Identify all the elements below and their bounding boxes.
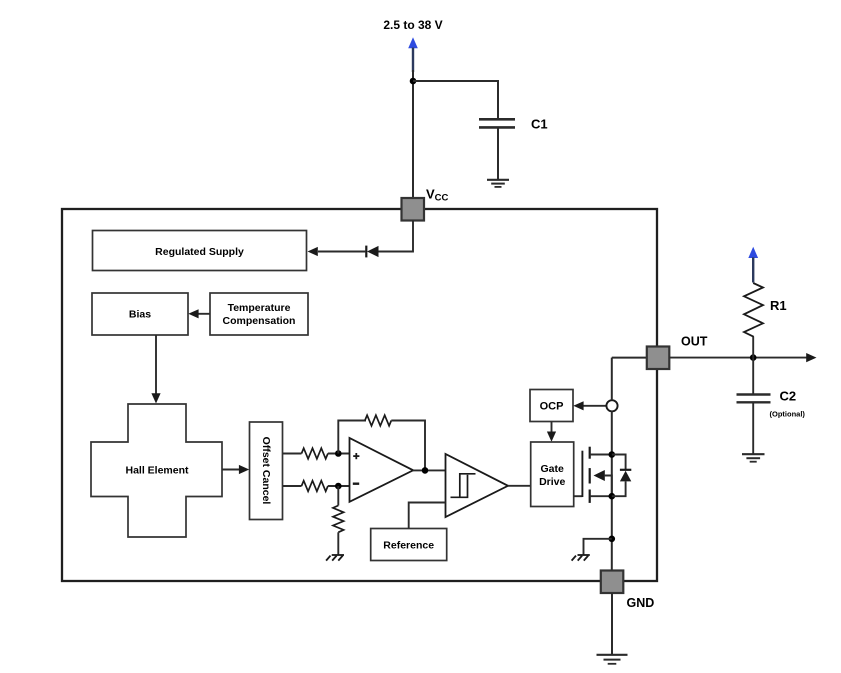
- node junction dot supply: [410, 78, 417, 85]
- Hall Element (cross plate): [91, 404, 222, 537]
- resistor (to ground, below - input): [337, 486, 339, 506]
- wire OUT to the right + arrowhead: [669, 357, 808, 359]
- wire supply vertical to VCC pin: [412, 70, 414, 199]
- gate bar: [581, 451, 583, 497]
- ground (earth) below GND pin: [597, 654, 628, 656]
- wire C1 to ground: [497, 129, 499, 180]
- svg-text:Temperature: Temperature: [228, 302, 291, 314]
- ground (signal) internal: [572, 555, 590, 561]
- svg-text:Compensation: Compensation: [223, 315, 296, 327]
- wire Reference to Schmitt: [409, 503, 446, 529]
- wire Offset Cancel to resistor (lower): [283, 485, 302, 487]
- block Regulated Supply: [93, 231, 307, 271]
- wire VCC pin to diode: [378, 221, 413, 252]
- wire feedback up/right: [338, 421, 366, 454]
- node junction dot (- input): [335, 483, 342, 490]
- svg-text:Bias: Bias: [129, 309, 151, 321]
- svg-text:Drive: Drive: [539, 476, 565, 488]
- svg-text:OUT: OUT: [681, 335, 708, 349]
- wire to internal ground: [584, 539, 612, 555]
- arrowhead into Offset Cancel: [239, 465, 249, 474]
- wire Schmitt to Gate Drive: [508, 485, 531, 487]
- svg-text:GND: GND: [627, 596, 655, 610]
- capacitor C2: [737, 393, 771, 395]
- wire op-amp output to Schmitt: [413, 469, 446, 471]
- wire Hall Element to Offset Cancel: [222, 469, 241, 471]
- power arrow VCC (blue): [408, 37, 418, 48]
- wire feedback to output: [391, 421, 425, 471]
- ground (signal) below resistor: [326, 555, 344, 561]
- channel segments: [589, 447, 591, 459]
- svg-text:Offset Cancel: Offset Cancel: [260, 437, 272, 505]
- svg-text:Hall Element: Hall Element: [125, 465, 189, 477]
- wire to op-amp + input: [328, 453, 350, 455]
- wire current sense to OCP + arrowhead: [581, 405, 607, 407]
- wire GND pin to earth: [611, 593, 613, 654]
- node junction dot (source to gnd): [609, 536, 616, 543]
- arrowhead into Regulated Supply: [308, 247, 318, 256]
- svg-text:Reference: Reference: [383, 540, 434, 552]
- svg-text:2.5 to 38 V: 2.5 to 38 V: [383, 18, 442, 32]
- body arrow: [594, 470, 605, 481]
- IC boundary box: [62, 209, 657, 581]
- wire Offset Cancel to resistor (upper): [283, 453, 302, 455]
- body diode branch: [612, 455, 626, 470]
- wire OUT down to C2: [752, 358, 754, 394]
- resistor R1: [744, 283, 763, 337]
- block Bias: [92, 293, 188, 335]
- node junction dot (op-amp output): [422, 467, 429, 474]
- resistor (lower input): [302, 481, 328, 492]
- block Temperature Compensation: [210, 293, 308, 335]
- wire OCP to Gate Drive + arrowhead: [551, 422, 553, 435]
- pin VCC (gray square): [402, 198, 425, 221]
- arrowhead into Bias: [188, 309, 198, 318]
- ground (earth) below C2: [742, 453, 765, 455]
- op-amp A1: [350, 438, 414, 502]
- power arrow (blue) above R1: [748, 247, 758, 258]
- wire OUT vertical (drain line): [611, 358, 613, 401]
- resistor (upper input): [302, 448, 328, 459]
- node dot drain: [609, 451, 616, 458]
- svg-text:Gate: Gate: [541, 463, 565, 475]
- capacitor C1: [479, 118, 515, 121]
- svg-text:Regulated Supply: Regulated Supply: [155, 246, 244, 258]
- current sense circle: [606, 400, 617, 411]
- wire to op-amp - input: [328, 485, 350, 487]
- arrowhead into Hall Element: [151, 393, 160, 403]
- node dot source: [609, 493, 616, 500]
- block Gate Drive: [531, 442, 574, 507]
- Schmitt trigger comparator: [446, 454, 509, 517]
- svg-text:C2: C2: [780, 389, 797, 404]
- wire Bias down to Hall Element: [155, 335, 157, 396]
- block OCP: [530, 390, 573, 422]
- wire supply to C1: [413, 81, 498, 119]
- wire Temperature Compensation to Bias: [198, 313, 210, 315]
- svg-text:(Optional): (Optional): [770, 409, 806, 418]
- ground (earth) below C1: [487, 179, 509, 181]
- drain stub: [590, 454, 612, 456]
- hysteresis symbol: [460, 474, 476, 498]
- pin OUT (gray square): [612, 357, 648, 359]
- svg-text:C1: C1: [531, 117, 548, 132]
- node junction dot (+ input): [335, 450, 342, 457]
- block Reference: [371, 529, 447, 561]
- pin GND (gray square): [601, 571, 624, 594]
- wire diode to Regulated Supply: [318, 251, 366, 253]
- diode (reverse protection): [365, 246, 367, 258]
- gate wire from Gate Drive: [574, 495, 583, 497]
- resistor (feedback): [365, 415, 391, 426]
- svg-text:R1: R1: [770, 298, 787, 313]
- block Offset Cancel (vertical text): [250, 422, 283, 520]
- source stub: [590, 495, 612, 497]
- svg-text:OCP: OCP: [540, 401, 564, 413]
- node junction dot OUT: [750, 354, 757, 361]
